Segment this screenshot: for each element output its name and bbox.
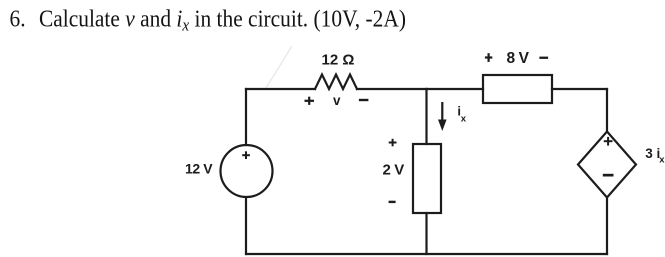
svg-text:12 V: 12 V — [185, 161, 213, 177]
wire resistor to middle node — [357, 88, 427, 90]
label plus inside diamond — [604, 137, 613, 146]
label 3ix of dependent source — [645, 146, 665, 165]
svg-text:v: v — [333, 93, 341, 108]
wire left branch upper — [245, 89, 247, 145]
resistor R 12ohm zigzag — [315, 75, 357, 90]
svg-text:2 V: 2 V — [383, 162, 405, 179]
label plus of v (resistor) — [305, 97, 315, 105]
dependent source 3ix diamond — [578, 132, 636, 198]
title text — [10, 5, 406, 34]
wire middle branch upper — [425, 89, 427, 144]
wire bottom horizontal — [246, 253, 607, 255]
svg-text:3 i: 3 i — [645, 146, 660, 161]
label minus of 8V — [539, 57, 548, 59]
current arrow ix — [438, 102, 447, 131]
element 2V box — [413, 144, 441, 213]
wire middle branch lower — [425, 213, 427, 254]
label ix of arrow — [457, 104, 466, 125]
wire right branch upper (to dependent source) — [606, 89, 608, 132]
svg-text:12 Ω: 12 Ω — [322, 52, 355, 69]
scan artifact diagonal line — [266, 46, 292, 88]
wire middle node to 8V box — [427, 88, 484, 90]
label plus inside source — [242, 151, 250, 159]
label minus of v (resistor) — [359, 99, 369, 101]
element 8V box — [483, 75, 552, 103]
wire right branch lower — [606, 198, 608, 255]
wire 8V box to top-right corner — [552, 88, 607, 90]
svg-text:8 V: 8 V — [507, 50, 530, 67]
label minus inside diamond — [603, 174, 614, 177]
svg-text:x: x — [659, 154, 665, 165]
wire top-left horizontal (source node to resistor) — [246, 88, 315, 90]
voltage source V1 12V circle — [221, 145, 273, 197]
wire left branch lower — [245, 198, 247, 254]
label plus of 2V — [389, 139, 397, 147]
label plus of 8V — [485, 53, 492, 62]
svg-text:6.Calculate v and ix in the ci: 6.Calculate v and ix in the circuit. (10… — [10, 5, 406, 34]
svg-text:x: x — [461, 114, 467, 125]
label minus of 2V — [389, 201, 396, 203]
